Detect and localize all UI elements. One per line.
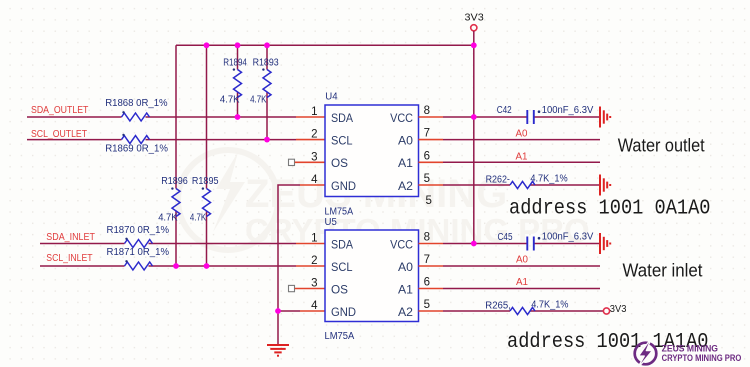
svg-text:4: 4 [311, 300, 318, 312]
U5 pin numbers [311, 232, 430, 313]
svg-text:4.7K: 4.7K [220, 94, 240, 105]
svg-text:8: 8 [424, 105, 430, 117]
svg-text:address 1001 0A1A0: address 1001 0A1A0 [509, 198, 711, 221]
svg-text:A1: A1 [516, 277, 528, 288]
svg-text:A0: A0 [398, 135, 413, 147]
pin stub U5 pin7 [419, 265, 444, 267]
svg-text:A0: A0 [398, 262, 413, 274]
power 3V3 terminal (R265) [603, 303, 626, 315]
svg-text:4.7K_1%: 4.7K_1% [531, 300, 568, 311]
svg-text:100nF_6.3V: 100nF_6.3V [542, 232, 594, 243]
pin stub U4 pin6 [419, 161, 444, 163]
svg-text:Water inlet: Water inlet [623, 259, 704, 280]
svg-text:SCL: SCL [331, 135, 353, 147]
wire: U4 A1 net [443, 161, 600, 163]
wire: U4 A0 net [443, 139, 600, 141]
wire: vertical column x=206.5 (R1895 branch) [206, 45, 208, 266]
svg-text:2: 2 [311, 129, 317, 141]
svg-text:A0: A0 [516, 255, 528, 266]
svg-text:A0: A0 [516, 129, 528, 140]
wire: U5 GND to ground rail [278, 310, 300, 312]
pin stub U4 pin2 [296, 139, 325, 141]
svg-text:R1871 0R_1%: R1871 0R_1% [107, 247, 170, 258]
svg-text:4.7K: 4.7K [190, 212, 207, 223]
resistor R265 4.7K_1% [485, 300, 568, 315]
op IC U4 LM75A body [325, 92, 419, 229]
wire: U4 A2 to R262 [443, 184, 600, 186]
svg-text:4.7K: 4.7K [158, 212, 178, 223]
svg-text:4: 4 [311, 174, 318, 186]
resistor R1895 vertical 4.7K [190, 176, 219, 223]
svg-text:SCL_OUTLET: SCL_OUTLET [31, 129, 87, 140]
svg-text:2: 2 [311, 255, 317, 267]
ground symbol GND [267, 345, 289, 356]
resistor R262 4.7K_1% [486, 173, 568, 188]
logo zeus mining [635, 337, 742, 367]
svg-text:6: 6 [424, 150, 430, 162]
svg-text:R1869 0R_1%: R1869 0R_1% [105, 143, 168, 154]
pin stub U4 pin3 [295, 161, 325, 163]
pin stub U4 pin8 [419, 116, 444, 118]
U4 pin names [331, 113, 413, 193]
svg-text:LM75A: LM75A [325, 207, 354, 218]
svg-text:U5: U5 [325, 217, 338, 228]
wire: SCL_INLET net [40, 265, 296, 267]
svg-text:VCC: VCC [390, 239, 413, 251]
svg-text:Water outlet: Water outlet [618, 134, 706, 155]
svg-text:4.7K_1%: 4.7K_1% [530, 173, 567, 184]
svg-text:A2: A2 [398, 181, 413, 193]
svg-text:SCL: SCL [331, 262, 353, 274]
svg-text:C45: C45 [498, 232, 513, 243]
svg-text:7: 7 [424, 128, 430, 140]
svg-text:CRYPTO MINING PRO: CRYPTO MINING PRO [662, 352, 742, 363]
wire: top 3V3 bus horizontal [176, 44, 474, 46]
op IC U5 LM75A body [325, 230, 419, 342]
power 3V3 top terminal [465, 11, 484, 30]
watermark [178, 150, 590, 250]
pin stub U5 pin2 [296, 265, 325, 267]
U4 pin numbers [311, 105, 432, 207]
svg-text:LM75A: LM75A [325, 331, 355, 342]
wire: U5 A1 net [443, 288, 600, 290]
wire: SDA_INLET net [40, 243, 296, 245]
no-connect square U4 OS pin [289, 159, 295, 165]
wire: U5 VCC rail to C45 and ground [443, 243, 600, 245]
pin stub U5 pin1 [296, 243, 325, 245]
svg-text:A1: A1 [516, 152, 528, 163]
svg-text:8: 8 [424, 232, 430, 244]
ground bars (C45) [600, 233, 610, 254]
wire: SDA_OUTLET net [27, 116, 296, 118]
svg-text:SCL_INLET: SCL_INLET [46, 253, 92, 264]
svg-text:R1895: R1895 [192, 176, 219, 187]
svg-text:VCC: VCC [390, 113, 413, 125]
pin stub U4 pin1 [296, 116, 325, 118]
pin stub U5 pin3 [295, 288, 325, 290]
svg-text:SDA_OUTLET: SDA_OUTLET [31, 105, 88, 116]
resistor R1871 0R_1% [107, 247, 170, 270]
svg-text:R1896: R1896 [161, 176, 188, 187]
pin stub U4 pin7 [419, 139, 444, 141]
svg-text:1: 1 [311, 106, 317, 118]
svg-text:3: 3 [311, 151, 317, 163]
svg-text:R1893: R1893 [253, 58, 279, 69]
wire: U4 VCC rail to C42 and ground [443, 116, 600, 118]
pin stub U4 pin4 [300, 184, 325, 186]
svg-text:A1: A1 [398, 284, 413, 296]
svg-text:R265,: R265, [485, 300, 511, 311]
svg-text:SDA_INLET: SDA_INLET [46, 232, 95, 243]
ground bars (R262) [600, 175, 610, 196]
pin stub U5 pin4 [300, 310, 325, 312]
svg-text:R1868 0R_1%: R1868 0R_1% [105, 98, 168, 109]
svg-text:R1870 0R_1%: R1870 0R_1% [107, 225, 170, 236]
svg-text:OS: OS [331, 284, 348, 296]
wire: vertical column x=176 (R1896 branch) [175, 45, 177, 266]
wire: vertical column x=267 (R1893 branch) [266, 45, 268, 139]
svg-text:U4: U4 [325, 92, 338, 103]
pin stub U5 pin5 [419, 310, 444, 312]
svg-text:R262-: R262- [486, 174, 510, 185]
pin stub U5 pin6 [419, 288, 444, 290]
svg-text:3: 3 [311, 278, 317, 290]
pin stub U4 pin5 [419, 184, 444, 186]
svg-text:GND: GND [331, 307, 356, 319]
svg-text:OS: OS [331, 158, 348, 170]
wire: U5 A0 net [443, 265, 600, 267]
svg-text:A2: A2 [398, 307, 413, 319]
resistor R1893 vertical 4.7K [250, 58, 279, 106]
resistor R1869 0R_1% [105, 134, 168, 155]
svg-text:6: 6 [424, 277, 430, 289]
ground bars (C42) [600, 107, 610, 128]
svg-text:100nF_6.3V: 100nF_6.3V [542, 105, 594, 116]
svg-text:3V3: 3V3 [465, 11, 484, 23]
svg-text:A1: A1 [398, 158, 413, 170]
svg-text:5: 5 [424, 299, 430, 311]
svg-text:5: 5 [426, 195, 432, 207]
capacitor C45 100nF_6.3V [498, 232, 594, 251]
resistor R1894 vertical 4.7K [220, 58, 247, 106]
svg-text:SDA: SDA [331, 239, 353, 251]
resistor R1868 0R_1% [105, 98, 168, 121]
resistor R1870 0R_1% [107, 225, 170, 248]
svg-text:1: 1 [311, 233, 317, 245]
wire: U5 A2 to R265 and 3V3 [443, 310, 603, 312]
svg-text:7: 7 [424, 254, 430, 266]
pin stub U5 pin8 [419, 243, 444, 245]
no-connect square U5 OS pin [289, 285, 295, 291]
svg-text:R1894: R1894 [223, 58, 247, 69]
svg-text:GND: GND [331, 181, 356, 193]
wire: U4 GND to ground rail [278, 185, 300, 345]
wire: SCL_OUTLET net [27, 139, 296, 141]
capacitor C42 100nF_6.3V [497, 105, 594, 124]
wire: 3V3 vertical drop to VCC rail [473, 31, 475, 244]
resistor R1896 vertical 4.7K [158, 176, 188, 223]
svg-text:5: 5 [424, 173, 430, 185]
svg-text:SDA: SDA [331, 113, 353, 125]
U5 pin names [331, 239, 413, 318]
svg-text:3V3: 3V3 [610, 303, 627, 315]
svg-text:4.7K: 4.7K [250, 94, 267, 105]
wire: vertical column x=237.5 (R1894 branch) [237, 45, 239, 117]
svg-text:C42: C42 [497, 105, 512, 116]
